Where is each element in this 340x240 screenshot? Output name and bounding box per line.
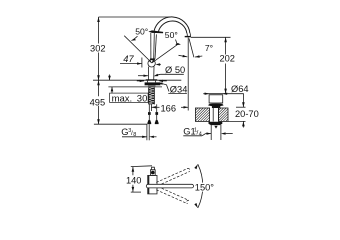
drain body through deck: [213, 106, 218, 122]
label 50deg first: [131, 27, 149, 41]
svg-text:30: 30: [137, 93, 148, 104]
hose nut right: [155, 112, 158, 115]
top reference line: [99, 16, 171, 18]
bottom view body: [148, 175, 157, 194]
dimension Ø64 line and arrows: [203, 93, 244, 95]
label G1 1/4: [183, 127, 232, 138]
escutcheon base: [145, 79, 161, 87]
bottom reference line 495: [94, 123, 147, 125]
bottom view ghost spout upper: [156, 168, 190, 185]
outlet extension line down: [187, 38, 189, 111]
svg-text:302: 302: [90, 43, 106, 53]
label Ø50: [154, 65, 186, 76]
label 150deg: [195, 183, 216, 193]
label G3/8: [121, 124, 156, 140]
hose foot right: [155, 120, 159, 124]
label Ø34 with leader: [158, 82, 188, 94]
svg-text:50°: 50°: [135, 27, 148, 37]
label Ø64: [231, 84, 249, 107]
drain deck hatched left: [195, 108, 209, 121]
label 7deg: [205, 43, 213, 53]
lever column: [151, 33, 157, 59]
spout arc inner: [158, 21, 187, 33]
ball joint: [148, 58, 155, 67]
dimension line 302/495 vertical: [97, 17, 100, 124]
lever 50deg left line: [124, 36, 152, 63]
spout arc outer: [154, 17, 190, 33]
dimension max.30 arrows: [108, 75, 113, 94]
hose stem right lower: [156, 115, 158, 120]
outlet level line: [191, 36, 231, 38]
svg-text:495: 495: [90, 97, 106, 107]
svg-text:max.: max.: [112, 93, 133, 104]
dimension 47: [120, 54, 161, 68]
drain locknut: [209, 122, 223, 125]
hose nut left: [148, 112, 151, 115]
svg-text:47: 47: [123, 54, 134, 64]
threaded shank: [148, 87, 155, 104]
svg-text:4: 4: [199, 132, 202, 138]
dimension 20-70: [228, 109, 259, 128]
bottom view ghost spout lower: [156, 187, 189, 204]
spout outlet: [185, 33, 191, 37]
166 left extension: [150, 104, 152, 111]
dimension 166: [151, 103, 188, 113]
drain tailpiece: [211, 125, 221, 140]
bottom view knob: [150, 167, 155, 175]
lever cap wedge: [148, 30, 163, 33]
dimension arrows body tube: [138, 75, 148, 77]
drain flow arrow: [214, 126, 217, 129]
drain deck hatched right: [218, 108, 228, 121]
svg-text:140: 140: [126, 175, 142, 185]
lever 50deg right line: [152, 43, 179, 63]
hose stem left lower: [148, 115, 150, 120]
box max.30: [110, 93, 149, 104]
label 50deg second: [165, 30, 181, 45]
svg-text:166: 166: [161, 103, 177, 113]
body tube: [149, 67, 155, 81]
hose foot left: [147, 120, 151, 124]
drain body collar: [212, 106, 220, 108]
bottom view spout capsule: [146, 184, 193, 188]
svg-text:150°: 150°: [195, 183, 215, 193]
svg-text:20-70: 20-70: [235, 109, 259, 119]
bottom view 140 dimension: [126, 166, 152, 192]
7 deg arrows: [179, 55, 203, 58]
swivel arc 150deg: [194, 164, 203, 208]
dimension arrows escutcheon: [137, 80, 167, 82]
dimension 202: [219, 37, 235, 93]
svg-text:Ø 50: Ø 50: [165, 65, 185, 75]
hose stems upper: [149, 104, 156, 112]
deck top line: [93, 79, 181, 81]
svg-text:50°: 50°: [165, 30, 178, 40]
label 302: [90, 43, 106, 53]
svg-text:Ø34: Ø34: [170, 84, 188, 94]
svg-text:8: 8: [133, 132, 136, 138]
svg-text:202: 202: [219, 54, 235, 64]
svg-text:7°: 7°: [205, 43, 213, 53]
deck bottom line: [108, 86, 162, 88]
svg-text:Ø64: Ø64: [231, 84, 249, 94]
label 495: [90, 97, 106, 107]
7 deg tilted line: [189, 39, 194, 58]
drain cap: [208, 95, 223, 107]
